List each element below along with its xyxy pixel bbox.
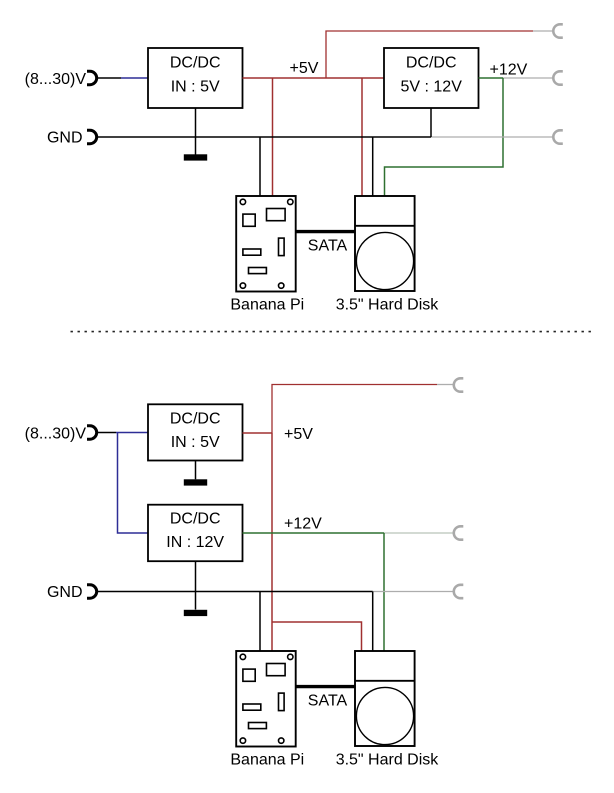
banana pi vertical rect bottom xyxy=(279,693,285,711)
banana pi hole top-right bottom xyxy=(288,654,293,659)
hard disk divider bottom xyxy=(355,680,415,682)
banana pi small rect low bottom xyxy=(249,723,267,729)
connector J10 GND output bottom xyxy=(454,585,464,598)
connector J6 input bottom xyxy=(87,426,97,439)
svg-text:+12V: +12V xyxy=(490,62,528,79)
svg-text:Banana Pi: Banana Pi xyxy=(230,297,304,314)
svg-text:+5V: +5V xyxy=(284,426,313,443)
wire GND down to Banana Pi xyxy=(259,137,261,196)
wire red to banana pi bottom xyxy=(271,622,273,651)
connector J1 input (8...30)V xyxy=(87,71,97,84)
banana pi small rect low xyxy=(249,268,267,274)
wire blue input to U1 xyxy=(121,77,148,79)
wire GND down to hard disk bottom xyxy=(372,592,374,652)
wire GND rail xyxy=(98,136,431,138)
ground bar under U4 xyxy=(184,610,207,616)
SATA cable bottom diagram xyxy=(296,685,355,688)
svg-text:IN : 5V: IN : 5V xyxy=(171,79,220,96)
svg-text:GND: GND xyxy=(47,584,83,601)
wire U3 bottom to ground xyxy=(195,461,197,480)
wire red riser to +5V output line bottom xyxy=(272,385,437,434)
banana pi hole bottom-right bottom xyxy=(279,738,284,743)
wire gray pin to GND connector xyxy=(431,136,553,138)
svg-text:+5V: +5V xyxy=(290,60,319,77)
wire red branch to hard disk bottom xyxy=(272,622,362,651)
dc/dc converter U2 box xyxy=(384,48,479,108)
hard disk body top xyxy=(355,196,415,291)
hard disk body bottom xyxy=(355,651,415,746)
connector J9 GND bottom xyxy=(87,585,97,598)
ground bar top diagram xyxy=(184,154,207,160)
wire J6 stub xyxy=(98,432,116,434)
svg-text:SATA: SATA xyxy=(308,692,348,709)
svg-text:3.5" Hard Disk: 3.5" Hard Disk xyxy=(336,297,440,314)
banana pi chip square bottom xyxy=(243,669,255,681)
banana pi vertical rect xyxy=(279,238,285,256)
hard disk platter circle bottom xyxy=(356,687,413,744)
wire GND down to hard disk xyxy=(372,137,374,196)
wire red down to boards bottom xyxy=(271,433,273,622)
wire green +12V down to hard disk xyxy=(385,78,504,196)
banana pi small rect mid xyxy=(243,249,261,255)
svg-text:DC/DC: DC/DC xyxy=(170,55,221,72)
svg-text:DC/DC: DC/DC xyxy=(170,411,221,428)
banana pi board bottom xyxy=(236,651,296,747)
connector J4 GND xyxy=(87,130,97,143)
wire green down to hard disk bottom xyxy=(383,533,385,651)
svg-text:(8...30)V: (8...30)V xyxy=(25,71,87,88)
banana pi board top xyxy=(236,196,296,292)
wire GND down to Banana Pi bottom xyxy=(259,592,261,652)
hard disk platter circle top xyxy=(356,232,413,289)
banana pi hole bottom-right xyxy=(279,283,284,288)
svg-text:DC/DC: DC/DC xyxy=(170,511,221,528)
connector J2 +5V output xyxy=(553,24,562,37)
banana pi hole bottom-left xyxy=(240,283,245,288)
svg-text:SATA: SATA xyxy=(308,237,348,254)
svg-text:IN : 5V: IN : 5V xyxy=(171,434,220,451)
wire +5V rail U1 to U2 xyxy=(243,77,385,79)
connector J7 +5V output bottom xyxy=(454,378,464,391)
svg-text:5V : 12V: 5V : 12V xyxy=(401,79,463,96)
wire gray pin to GND connector bottom xyxy=(373,591,453,593)
svg-text:3.5" Hard Disk: 3.5" Hard Disk xyxy=(336,752,440,769)
wire red riser to +5V output line xyxy=(326,31,533,78)
wire gray pin to +5V connector xyxy=(533,30,553,32)
banana pi hole top-left bottom xyxy=(240,654,245,659)
svg-text:DC/DC: DC/DC xyxy=(406,55,457,72)
svg-text:+12V: +12V xyxy=(284,516,322,533)
connector J5 GND output xyxy=(553,130,562,143)
banana pi small rect mid bottom xyxy=(243,704,261,710)
wire U2 bottom to GND rail xyxy=(430,108,432,137)
separator dotted line xyxy=(71,331,593,333)
wire blue input to U3 xyxy=(116,432,148,434)
dc/dc converter U4 box xyxy=(148,505,243,562)
banana pi hole top-left xyxy=(240,199,245,204)
wire gray pin to +12V connector xyxy=(503,77,553,79)
wire gray pin to +5V connector bottom xyxy=(437,384,453,386)
svg-text:GND: GND xyxy=(47,129,83,146)
connector J8 +12V output bottom xyxy=(454,526,464,539)
wire U1 bottom to ground xyxy=(195,108,197,155)
connector J3 +12V output xyxy=(553,71,562,84)
wire green +12V from U2 xyxy=(479,77,504,79)
wire red +5V down to Banana Pi xyxy=(272,78,274,196)
dc/dc converter U3 box xyxy=(148,404,243,460)
wire gray pin to +12V connector bottom xyxy=(384,532,453,534)
wire green +12V from U4 xyxy=(243,532,385,534)
SATA cable top diagram xyxy=(296,230,355,233)
svg-text:Banana Pi: Banana Pi xyxy=(230,752,304,769)
dc/dc converter U1 box xyxy=(148,48,243,108)
banana pi hole top-right xyxy=(288,199,293,204)
wire red +5V from U3 xyxy=(243,432,273,434)
svg-text:(8...30)V: (8...30)V xyxy=(25,425,87,442)
wire GND rail bottom xyxy=(98,591,373,593)
wire blue branch down to U4 xyxy=(118,433,149,534)
hard disk divider top xyxy=(355,225,415,227)
banana pi chip square xyxy=(243,214,255,226)
wire red +5V down to hard disk xyxy=(361,78,363,196)
wire U4 bottom through GND to ground xyxy=(195,561,197,609)
svg-text:IN : 12V: IN : 12V xyxy=(166,534,224,551)
banana pi connector rect top xyxy=(267,209,286,221)
banana pi hole bottom-left bottom xyxy=(240,738,245,743)
ground bar under U3 xyxy=(184,479,207,485)
wire J1 to blue xyxy=(98,77,121,79)
banana pi connector rect top bottom xyxy=(267,664,286,676)
